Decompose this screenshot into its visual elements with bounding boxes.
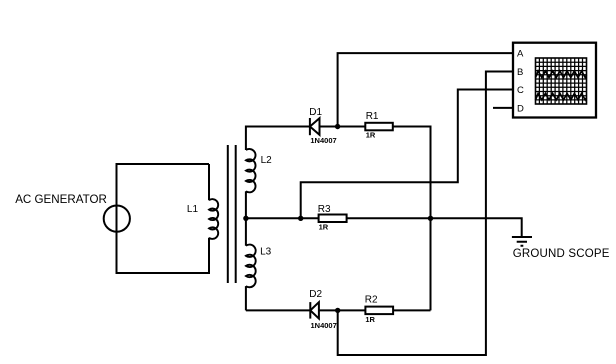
svg-text:R3: R3 bbox=[318, 204, 331, 215]
svg-text:R2: R2 bbox=[365, 295, 378, 306]
svg-text:R1: R1 bbox=[366, 111, 379, 122]
svg-text:A: A bbox=[517, 49, 524, 60]
svg-text:1R: 1R bbox=[365, 315, 375, 324]
svg-text:1R: 1R bbox=[366, 130, 376, 139]
svg-text:L2: L2 bbox=[261, 155, 273, 166]
svg-text:D1: D1 bbox=[309, 107, 322, 118]
svg-text:L1: L1 bbox=[187, 204, 199, 215]
svg-text:L3: L3 bbox=[260, 247, 272, 258]
svg-text:1N4007: 1N4007 bbox=[311, 321, 337, 330]
svg-text:D: D bbox=[517, 104, 524, 115]
svg-text:AC GENERATOR: AC GENERATOR bbox=[15, 193, 107, 206]
svg-text:C: C bbox=[517, 85, 524, 96]
svg-text:B: B bbox=[517, 67, 523, 78]
svg-text:1N4007: 1N4007 bbox=[310, 136, 336, 145]
svg-text:GROUND SCOPE: GROUND SCOPE bbox=[513, 248, 610, 260]
svg-text:1R: 1R bbox=[319, 223, 329, 232]
svg-text:D2: D2 bbox=[309, 289, 322, 300]
